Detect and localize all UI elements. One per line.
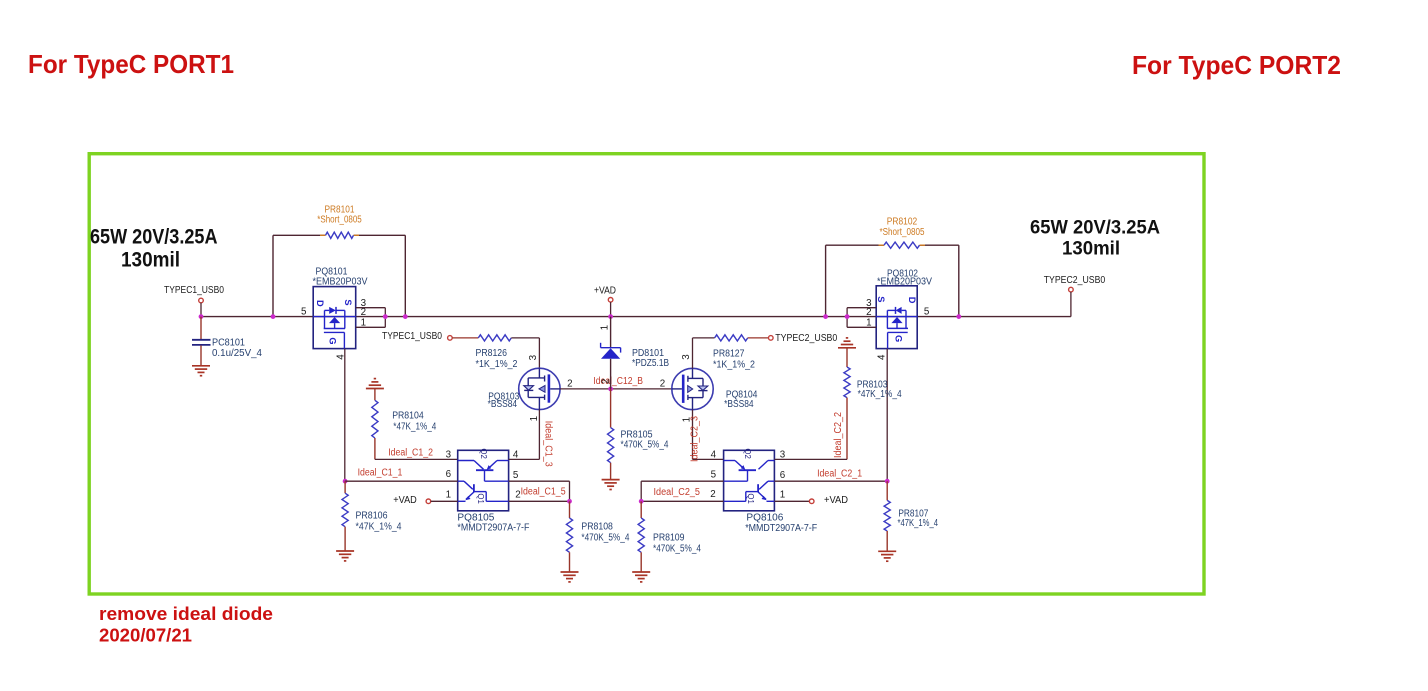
wire PQ8105 pin5 xyxy=(509,480,570,482)
resistor R PR8102 xyxy=(884,242,920,248)
wire PQ8104 pin1 down xyxy=(692,410,694,460)
svg-text:*1K_1%_2: *1K_1%_2 xyxy=(476,359,518,370)
wire Ideal_C1_1 xyxy=(345,480,458,482)
junction pin connector PQ8102 xyxy=(845,314,850,319)
wire PQ8103 pin1 down xyxy=(538,410,540,460)
svg-text:4: 4 xyxy=(877,354,888,360)
wire PQ8105 pin4 to Ideal_C1_3 xyxy=(509,458,540,460)
svg-text:PR8104: PR8104 xyxy=(392,410,424,421)
ground below PR8107 xyxy=(878,550,896,552)
svg-text:PR8105: PR8105 xyxy=(621,429,653,440)
svg-text:+VAD: +VAD xyxy=(594,285,616,296)
svg-text:2: 2 xyxy=(361,307,366,318)
svg-text:6: 6 xyxy=(780,470,786,481)
svg-text:Q2: Q2 xyxy=(743,448,752,458)
svg-text:*BSS84: *BSS84 xyxy=(724,399,754,410)
svg-text:130mil: 130mil xyxy=(121,249,180,272)
ground below PR8109 xyxy=(632,571,650,573)
svg-text:*EMB20P03V: *EMB20P03V xyxy=(313,276,368,287)
svg-text:1: 1 xyxy=(446,490,451,501)
svg-text:PR8127: PR8127 xyxy=(713,348,745,359)
svg-text:PQ8106: PQ8106 xyxy=(746,513,784,524)
resistor R PR8127 xyxy=(715,335,748,341)
svg-text:*47K_1%_4: *47K_1%_4 xyxy=(393,421,436,432)
junction PR8101 right xyxy=(403,314,408,319)
svg-text:*470K_5%_4: *470K_5%_4 xyxy=(581,532,629,543)
wire Ideal_C2_1 xyxy=(774,480,887,482)
wire PR8102 loop xyxy=(825,245,827,316)
svg-text:Ideal_C1_3: Ideal_C1_3 xyxy=(542,421,553,467)
PQ8101 internals xyxy=(324,310,326,328)
svg-text:1: 1 xyxy=(529,416,540,421)
svg-text:Q2: Q2 xyxy=(479,448,488,458)
wire +VAD stub xyxy=(610,302,612,317)
svg-text:*MMDT2907A-7-F: *MMDT2907A-7-F xyxy=(457,523,529,534)
stub circle +VAD PQ8105 xyxy=(426,499,431,504)
ground inverted above PR8103 xyxy=(838,347,856,349)
svg-text:5: 5 xyxy=(301,306,307,317)
wire PQ8102 pin4 down xyxy=(886,349,888,482)
svg-text:6: 6 xyxy=(446,469,452,480)
resistor R PR8126 xyxy=(478,335,511,341)
svg-text:*Short_0805: *Short_0805 xyxy=(317,214,362,225)
junction PR8101 left xyxy=(271,314,276,319)
wire PQ8101 pin3 xyxy=(356,307,386,309)
wire PQ8102 pin1 xyxy=(847,326,876,328)
svg-text:Ideal_C2_3: Ideal_C2_3 xyxy=(690,416,701,462)
resistor R PR8104 xyxy=(374,389,376,401)
junction PR8102 left xyxy=(823,314,828,319)
wire PQ8104 pin1 to PQ8106 pin4 xyxy=(693,458,724,460)
node TYPEC1_USB0 left stub circle xyxy=(199,298,204,303)
svg-text:2: 2 xyxy=(866,307,871,318)
wire PQ8104 pin3 up xyxy=(692,338,694,368)
junction pin4/pin6 right xyxy=(885,479,890,484)
wire PQ8101 pin4 down xyxy=(344,349,346,482)
svg-text:For TypeC PORT2: For TypeC PORT2 xyxy=(1132,50,1341,80)
wire Ideal_C1_2 to PQ8105 pin3 xyxy=(375,458,458,460)
resistor R PR8106 xyxy=(344,481,346,493)
svg-text:TYPEC1_USB0: TYPEC1_USB0 xyxy=(164,285,224,296)
svg-text:*PDZ5.1B: *PDZ5.1B xyxy=(632,358,669,369)
svg-text:D: D xyxy=(907,297,917,304)
svg-text:Q1: Q1 xyxy=(476,493,485,503)
PQ8106 internals Q1 xyxy=(768,480,774,482)
junction main/left stub xyxy=(199,314,204,319)
svg-text:Ideal_C2_1: Ideal_C2_1 xyxy=(817,469,862,480)
ground below PR8105 xyxy=(602,479,620,481)
wire corner to PR8127 xyxy=(693,337,715,339)
svg-text:*MMDT2907A-7-F: *MMDT2907A-7-F xyxy=(745,523,817,534)
ground below PR8108 xyxy=(561,571,579,573)
resistor R PR8103 xyxy=(846,348,848,367)
junction PR8102 right xyxy=(956,314,961,319)
svg-text:G: G xyxy=(328,337,338,344)
svg-text:*470K_5%_4: *470K_5%_4 xyxy=(621,440,669,451)
stub circle +VAD PQ8106 xyxy=(809,499,814,504)
junction Ideal_C1_5 xyxy=(567,499,572,504)
wire main horizontal net xyxy=(201,316,1071,318)
junction Ideal_C2_5 xyxy=(639,499,644,504)
svg-text:PR8102: PR8102 xyxy=(887,216,918,227)
PQ8105 internals Q2 xyxy=(458,460,474,462)
svg-text:*EMB20P03V: *EMB20P03V xyxy=(877,277,932,288)
svg-text:TYPEC1_USB0: TYPEC1_USB0 xyxy=(382,331,442,342)
wire PR8101 loop xyxy=(272,235,274,316)
svg-text:*47K_1%_4: *47K_1%_4 xyxy=(858,389,902,400)
transistor Q PQ8103 BSS84 xyxy=(519,368,560,409)
svg-text:PR8106: PR8106 xyxy=(356,511,388,522)
stub circle TYPEC2_USB0 right xyxy=(1069,287,1074,292)
transistor Q PQ8102 xyxy=(876,286,917,349)
svg-text:TYPEC2_USB0: TYPEC2_USB0 xyxy=(775,333,837,344)
svg-text:TYPEC2_USB0: TYPEC2_USB0 xyxy=(1044,275,1106,286)
ground inverted above PR8104 xyxy=(366,388,384,390)
ground below PC8101 xyxy=(192,365,210,367)
wire PQ8106 pin3 to PR8103 xyxy=(774,458,847,460)
svg-text:Q1: Q1 xyxy=(746,493,755,503)
svg-text:*1K_1%_2: *1K_1%_2 xyxy=(713,360,755,371)
svg-text:65W 20V/3.25A: 65W 20V/3.25A xyxy=(90,225,218,248)
junction +VAD main xyxy=(608,314,613,319)
transistor Q PQ8105 MMDT2907A xyxy=(458,450,509,511)
wire pin1 to +VAD xyxy=(774,500,809,502)
svg-text:PR8108: PR8108 xyxy=(581,522,613,533)
wire stub to PR8126 xyxy=(452,337,478,339)
wire pin5 down xyxy=(569,481,571,501)
wire stub TYPEC1_USB0 left xyxy=(200,303,202,317)
svg-text:Ideal_C1_5: Ideal_C1_5 xyxy=(521,487,566,498)
svg-text:5: 5 xyxy=(924,307,930,318)
svg-text:G: G xyxy=(893,335,903,342)
transistor Q PQ8101 xyxy=(313,287,356,349)
svg-text:For TypeC PORT1: For TypeC PORT1 xyxy=(28,49,234,79)
svg-text:5: 5 xyxy=(513,470,519,481)
transistor Q PQ8104 BSS84 xyxy=(672,368,713,409)
svg-text:65W 20V/3.25A: 65W 20V/3.25A xyxy=(1030,217,1160,238)
wire +VAD to pin1 xyxy=(431,500,458,502)
diode D PD8101 zener xyxy=(610,317,612,348)
resistor R PR8109 xyxy=(640,501,642,518)
PQ8105 internals Q1 xyxy=(458,480,464,482)
svg-text:3: 3 xyxy=(528,354,539,360)
ground below PR8106 xyxy=(336,550,354,552)
wire TYPEC2 stub down xyxy=(1070,292,1072,317)
svg-text:S: S xyxy=(876,296,886,302)
wire PQ8101 pin connector xyxy=(384,308,386,328)
svg-text:*47K_1%_4: *47K_1%_4 xyxy=(898,518,939,529)
PQ8106 internals Q2 xyxy=(724,460,735,462)
wire PQ8105 pin2 Ideal_C1_5 xyxy=(509,500,570,502)
svg-text:*470K_5%_4: *470K_5%_4 xyxy=(653,543,701,554)
svg-text:Ideal_C2_2: Ideal_C2_2 xyxy=(833,412,844,458)
svg-text:*BSS84: *BSS84 xyxy=(488,399,518,410)
svg-text:PR8126: PR8126 xyxy=(476,348,508,359)
junction pin connector xyxy=(383,314,388,319)
wire PQ8106 pin2 Ideal_C2_5 xyxy=(641,500,723,502)
svg-text:2: 2 xyxy=(600,379,611,384)
wire pin5 down xyxy=(640,481,642,501)
junction zener mid xyxy=(608,387,613,392)
wire PQ8106 pin5 xyxy=(641,480,723,482)
svg-text:Ideal_C2_5: Ideal_C2_5 xyxy=(654,487,701,498)
svg-text:130mil: 130mil xyxy=(1062,238,1120,259)
svg-text:PQ8105: PQ8105 xyxy=(457,512,495,523)
svg-text:Ideal_C1_1: Ideal_C1_1 xyxy=(358,468,403,479)
svg-text:S: S xyxy=(343,299,353,305)
stub circle TYPEC2_USB0 mid xyxy=(769,336,774,341)
resistor R PR8107 xyxy=(886,481,888,500)
svg-text:*47K_1%_4: *47K_1%_4 xyxy=(356,521,402,532)
resistor R PR8101 xyxy=(326,232,354,238)
svg-text:remove ideal diode: remove ideal diode xyxy=(99,603,273,624)
svg-text:PC8101: PC8101 xyxy=(212,337,245,348)
wire down to PQ8103 pin3 xyxy=(538,338,540,368)
svg-text:4: 4 xyxy=(711,449,717,460)
svg-text:*Short_0805: *Short_0805 xyxy=(880,227,925,238)
resistor R PR8108 xyxy=(569,501,571,518)
transistor Q PQ8106 MMDT2907A xyxy=(724,450,775,511)
wire mid net Ideal_C12_B xyxy=(560,388,672,390)
svg-text:+VAD: +VAD xyxy=(393,495,417,506)
svg-text:0.1u/25V_4: 0.1u/25V_4 xyxy=(212,348,263,359)
svg-text:2: 2 xyxy=(660,379,665,390)
svg-text:5: 5 xyxy=(711,470,717,481)
svg-text:+VAD: +VAD xyxy=(824,495,848,506)
PQ8102 internals xyxy=(905,310,907,328)
svg-text:Ideal_C1_2: Ideal_C1_2 xyxy=(388,447,433,458)
stub circle TYPEC1_USB0 mid xyxy=(448,336,453,341)
svg-text:1: 1 xyxy=(780,490,785,501)
wire PR8127 to stub xyxy=(748,337,769,339)
svg-text:D: D xyxy=(315,300,325,307)
resistor R PR8105 xyxy=(610,389,612,428)
svg-text:2: 2 xyxy=(567,379,572,390)
svg-text:1: 1 xyxy=(600,325,611,330)
junction pin4/pin6 xyxy=(343,479,348,484)
svg-text:1: 1 xyxy=(866,317,871,328)
svg-text:3: 3 xyxy=(681,354,692,360)
capacitor C PC8101 xyxy=(200,317,202,340)
wire PR8126 to PQ8103 xyxy=(511,337,539,339)
svg-text:PR8109: PR8109 xyxy=(653,532,685,543)
svg-text:2: 2 xyxy=(710,489,715,500)
svg-text:3: 3 xyxy=(446,449,452,460)
wire PQ8101 pin1 xyxy=(356,326,386,328)
wire PQ8102 pin3 xyxy=(847,307,876,309)
green border frame xyxy=(89,154,1204,594)
stub circle +VAD xyxy=(608,298,613,303)
svg-text:2020/07/21: 2020/07/21 xyxy=(99,625,192,646)
wire PQ8102 pin connector xyxy=(846,308,848,328)
svg-text:1: 1 xyxy=(361,317,366,328)
